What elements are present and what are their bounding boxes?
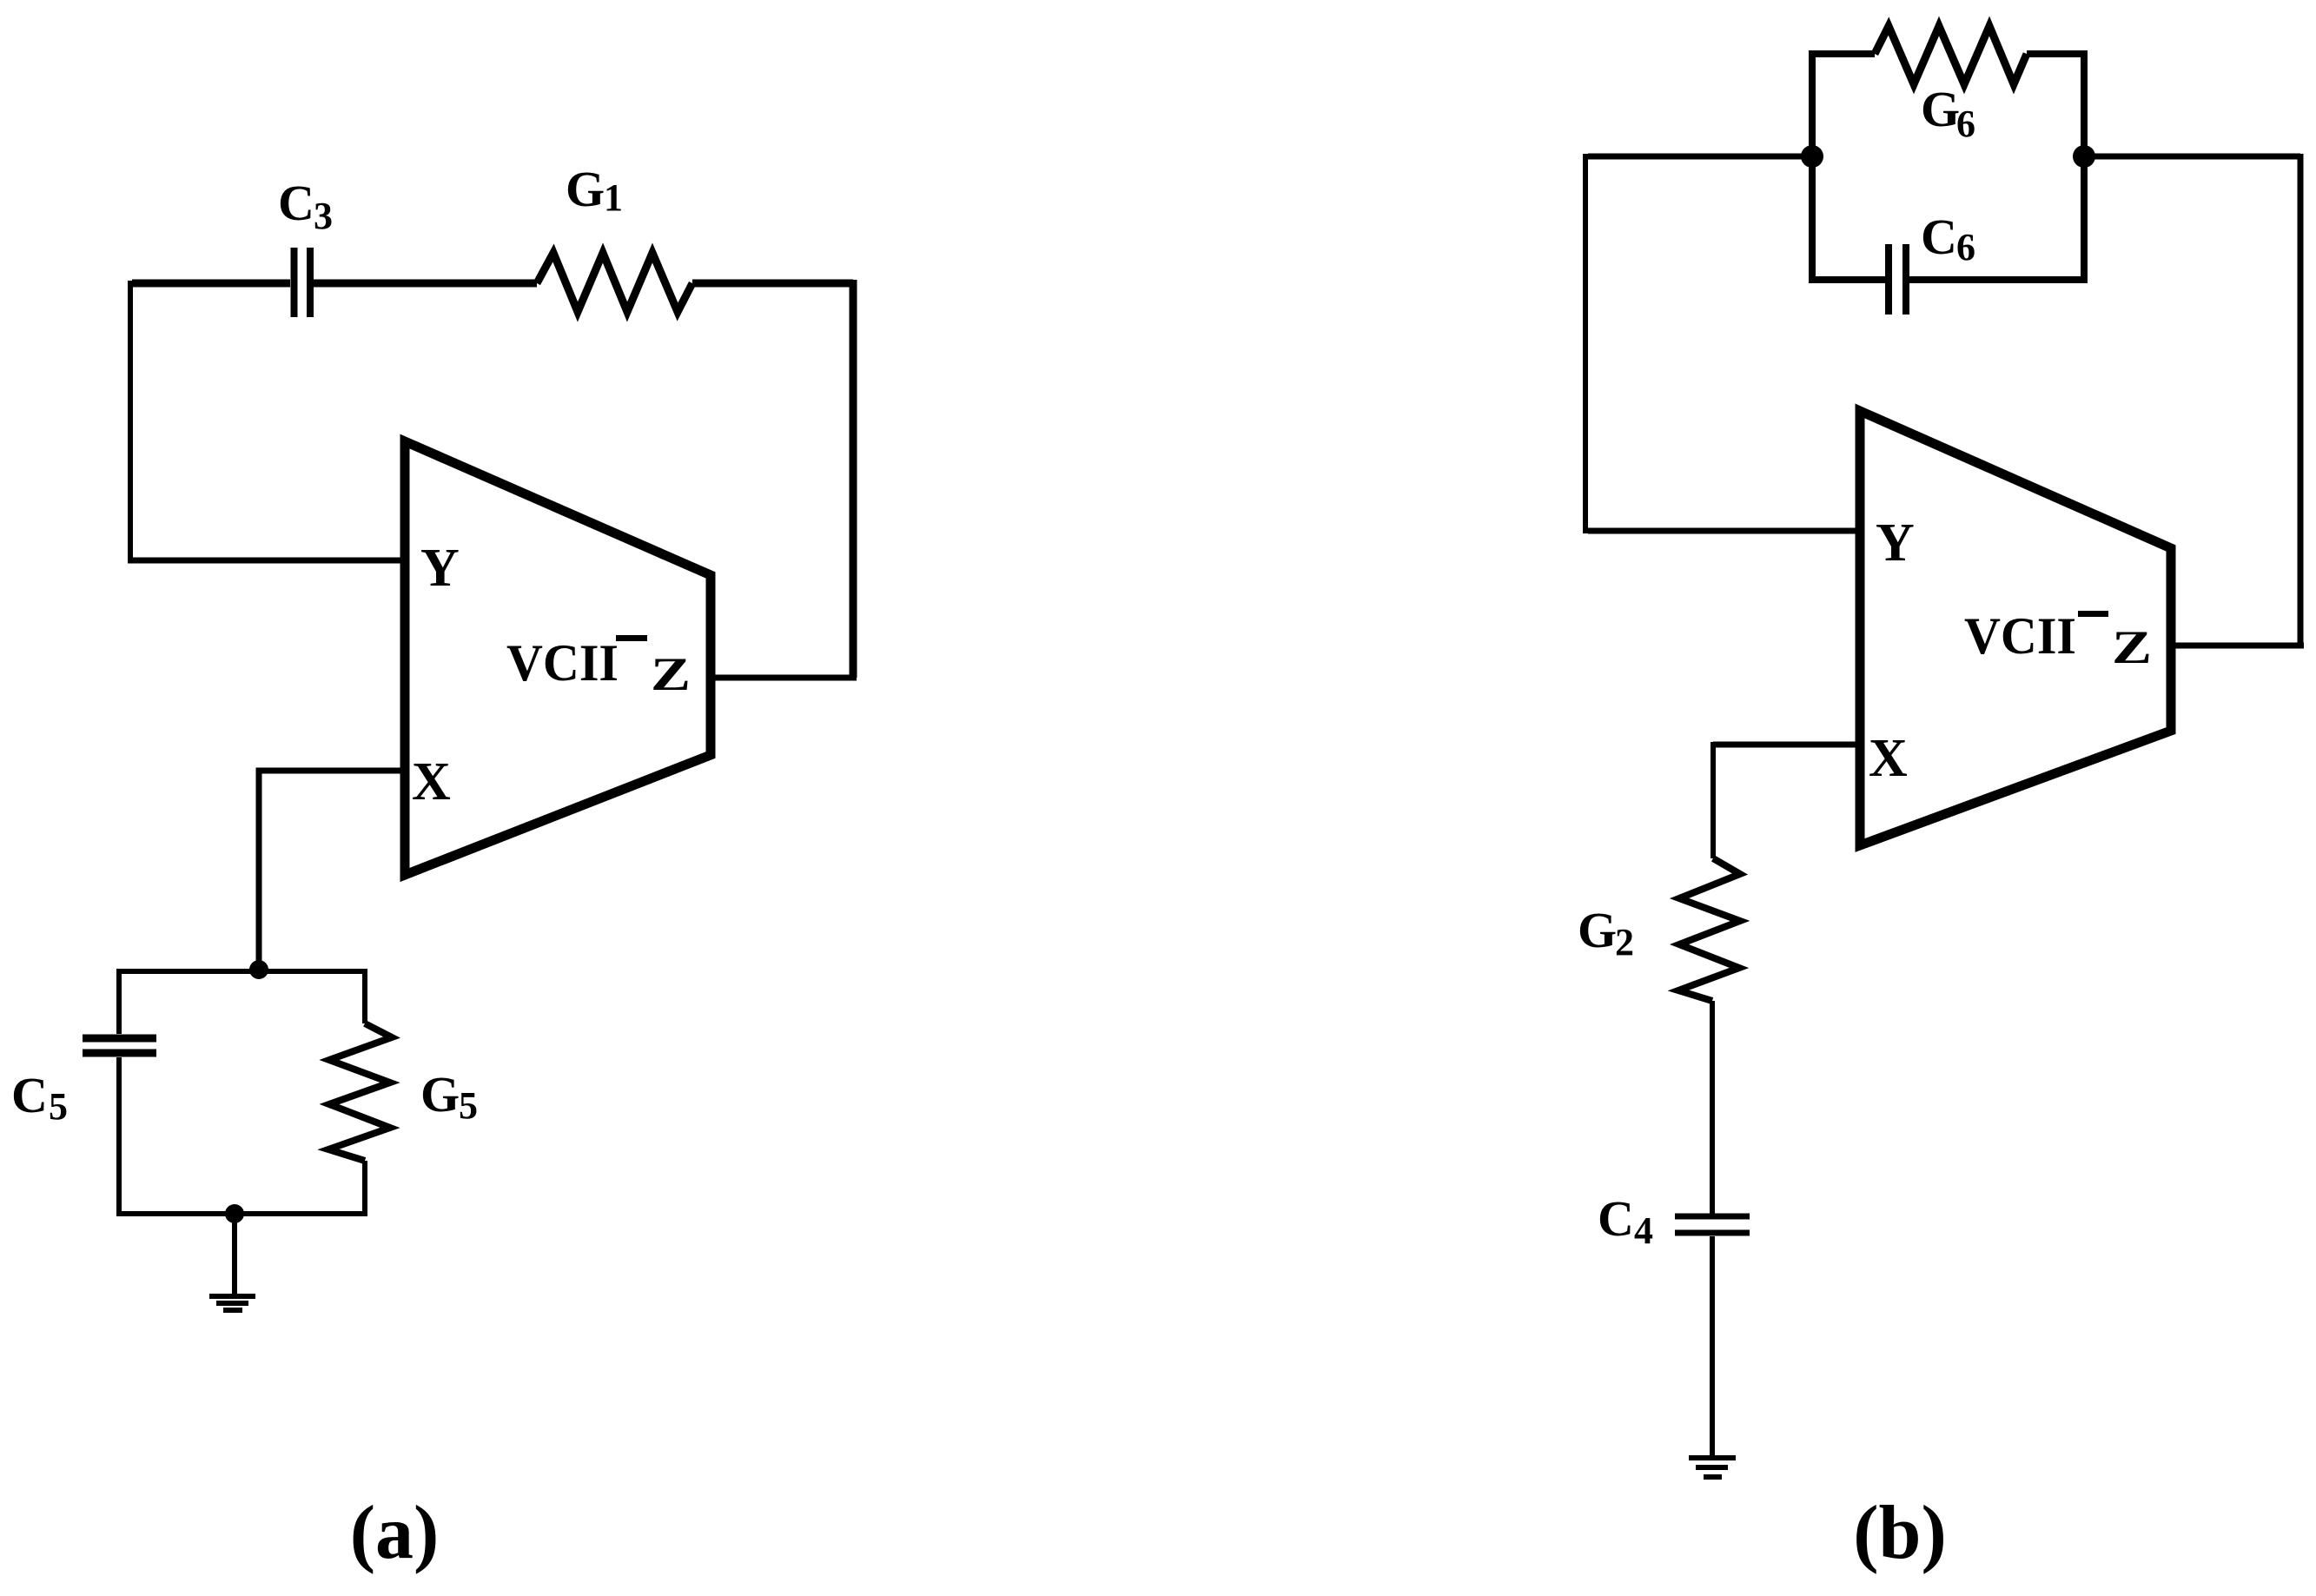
- svg-text:Z: Z: [2112, 621, 2152, 673]
- svg-text:6: 6: [1956, 226, 1975, 268]
- svg-text:Y: Y: [1876, 513, 1915, 573]
- svg-text:Z: Z: [651, 648, 691, 700]
- svg-text:X: X: [1869, 729, 1908, 788]
- svg-text:C: C: [278, 175, 314, 231]
- svg-text:C: C: [1598, 1190, 1634, 1247]
- svg-text:Y: Y: [420, 539, 460, 598]
- svg-text:4: 4: [1634, 1209, 1653, 1252]
- svg-text:2: 2: [1615, 921, 1634, 964]
- svg-text:C: C: [11, 1067, 48, 1123]
- svg-text:(a): (a): [350, 1491, 440, 1575]
- svg-text:G: G: [420, 1066, 460, 1122]
- svg-text:5: 5: [459, 1084, 478, 1127]
- svg-text:VCII: VCII: [1964, 607, 2076, 665]
- svg-text:3: 3: [314, 195, 333, 237]
- svg-text:G: G: [1921, 81, 1960, 137]
- svg-text:VCII: VCII: [506, 634, 619, 692]
- svg-text:G: G: [1578, 902, 1617, 958]
- svg-text:5: 5: [49, 1085, 68, 1128]
- svg-text:G: G: [566, 161, 605, 217]
- svg-text:(b): (b): [1853, 1491, 1947, 1575]
- svg-text:6: 6: [1956, 103, 1975, 145]
- svg-text:X: X: [412, 752, 451, 811]
- svg-text:1: 1: [604, 176, 623, 219]
- svg-text:C: C: [1921, 209, 1957, 265]
